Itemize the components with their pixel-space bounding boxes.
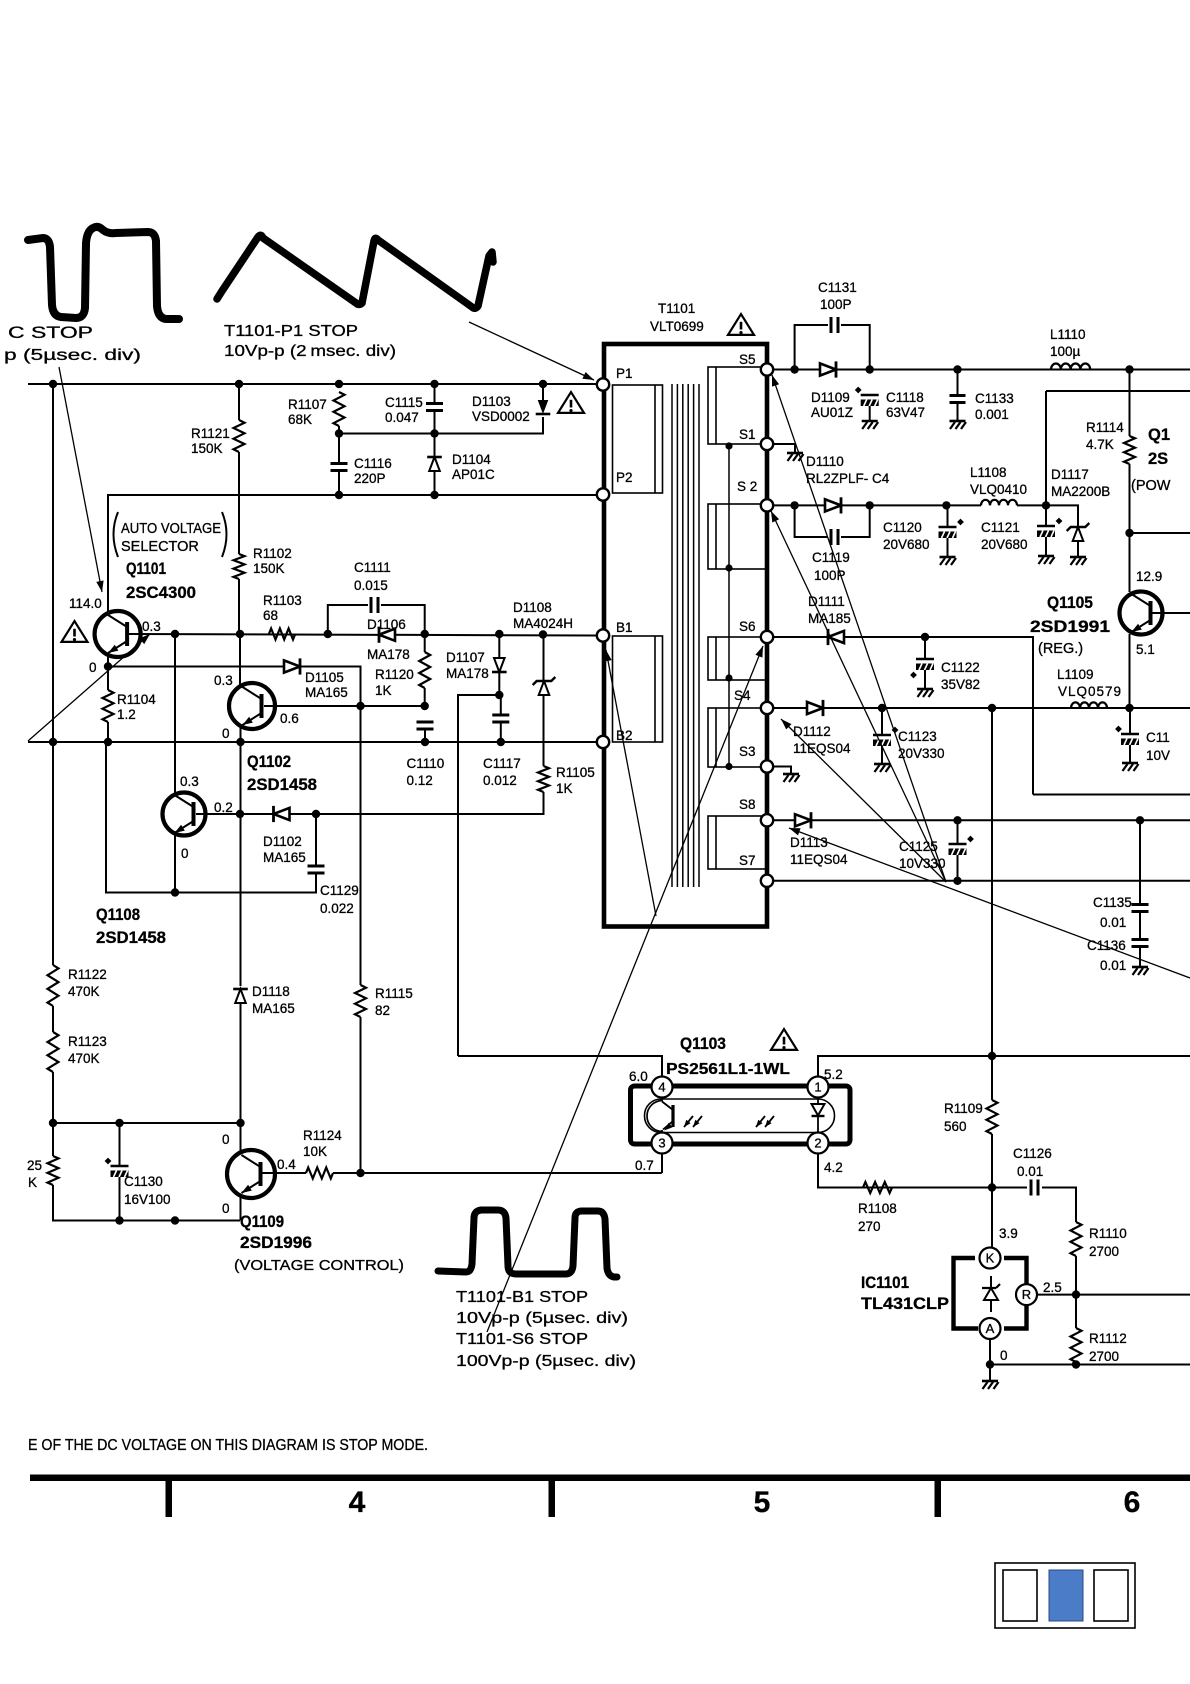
- value R1112 2700: [1089, 1349, 1119, 1364]
- svg-text:0.01: 0.01: [1100, 915, 1126, 930]
- wire S2 to L1108: [946, 504, 981, 506]
- label C1131: [818, 280, 857, 295]
- transistor Q1101: [95, 611, 141, 657]
- value R1115 82: [375, 1003, 390, 1018]
- svg-text:S8: S8: [739, 797, 756, 812]
- part 2SD1991: [1030, 618, 1110, 636]
- junction R1110/R-wire: [1072, 1290, 1080, 1298]
- ground at S1: [787, 453, 804, 461]
- junction W5/C1117: [497, 738, 505, 746]
- capacitor C1119: [831, 529, 838, 545]
- designator IC1101: [861, 1274, 909, 1292]
- label SELECTOR: [121, 539, 199, 555]
- svg-text:100µ: 100µ: [1050, 344, 1081, 359]
- wire D1108 top: [543, 635, 545, 682]
- junction R1114/Q1105 collector: [1125, 529, 1133, 537]
- pin K of IC1101: [980, 1248, 1001, 1269]
- value D1105 MA165: [305, 685, 348, 700]
- svg-text:20V680: 20V680: [883, 537, 930, 552]
- svg-text:C1123: C1123: [898, 729, 937, 744]
- diode D1110: [825, 497, 841, 513]
- svg-text:6: 6: [1124, 1486, 1141, 1519]
- svg-text:0.3: 0.3: [180, 774, 199, 789]
- designator Q1105: [1047, 594, 1093, 612]
- pin label B1: [616, 620, 633, 635]
- value C1130 16V100: [124, 1192, 171, 1207]
- value 0.6 at Q1102 base: [280, 711, 299, 726]
- label C1119: [812, 550, 850, 565]
- capacitor C1129: [308, 866, 325, 873]
- ground under C1122: [917, 689, 934, 697]
- junction S4/C1123: [878, 704, 886, 712]
- wire C1124 top: [1129, 708, 1131, 734]
- svg-text:20V330: 20V330: [898, 746, 945, 761]
- svg-text:(REG.): (REG.): [1038, 641, 1083, 657]
- value R1103 68: [263, 608, 278, 623]
- terminal P1: [597, 378, 609, 390]
- junction S5/C1133: [953, 365, 961, 373]
- wire left rail lower: [52, 1006, 54, 1032]
- svg-text:L1109: L1109: [1057, 667, 1094, 682]
- resistor R1109: [987, 1100, 998, 1134]
- svg-text:E OF THE DC VOLTAGE ON THIS DI: E OF THE DC VOLTAGE ON THIS DIAGRAM IS S…: [28, 1437, 428, 1454]
- value D1117 MA2200B: [1051, 484, 1110, 499]
- svg-text:R1108: R1108: [858, 1201, 897, 1216]
- svg-text:0.022: 0.022: [320, 901, 354, 916]
- zener D1117: [1067, 523, 1090, 541]
- junction W1/R1121: [235, 380, 243, 388]
- svg-text:114.0: 114.0: [69, 596, 102, 611]
- ground under C1121: [1038, 556, 1055, 564]
- wire S6 output: [773, 637, 1033, 795]
- wire Q1109 collector: [240, 1123, 242, 1152]
- svg-text:11EQS04: 11EQS04: [793, 741, 851, 756]
- svg-text:3: 3: [658, 1136, 665, 1151]
- wire C1130 top lead: [119, 1123, 121, 1166]
- capacitor C1116: [331, 464, 348, 471]
- label R1103: [263, 593, 302, 608]
- zone number 5: [754, 1486, 771, 1519]
- pin label S5: [739, 352, 756, 367]
- svg-text:0: 0: [181, 846, 189, 861]
- wire R1107 bottom: [338, 426, 340, 434]
- svg-text:150K: 150K: [191, 441, 223, 456]
- capacitor C1120 electrolytic: [939, 519, 964, 538]
- warning triangle near Q1103: [771, 1029, 797, 1050]
- wire D1102 to R1105 corner: [289, 813, 316, 815]
- value D1108 MA4024H: [513, 616, 573, 631]
- svg-text:Q1105: Q1105: [1047, 594, 1093, 612]
- value R1123 470K: [68, 1051, 100, 1066]
- label C1115: [385, 395, 423, 410]
- svg-text:270: 270: [858, 1219, 881, 1234]
- resistor R1107: [334, 392, 345, 426]
- value 0 at Q1109 collector: [222, 1132, 230, 1147]
- value C1122 35V82: [941, 677, 980, 692]
- label D1107: [446, 650, 485, 665]
- terminal B2: [597, 736, 609, 748]
- transformer primary winding P1-P2: [613, 385, 663, 493]
- wire A lead: [989, 1339, 991, 1365]
- wire bottom return: [990, 1364, 1190, 1366]
- wire Q1105 collector: [1129, 533, 1131, 592]
- wire Q1108 collector: [174, 634, 176, 793]
- svg-text:K: K: [28, 1175, 37, 1190]
- leader to S2: [771, 511, 946, 882]
- svg-text:0.4: 0.4: [277, 1157, 296, 1172]
- terminal B1: [597, 629, 609, 641]
- optocoupler light arrows right: [756, 1116, 774, 1127]
- svg-text:5.1: 5.1: [1136, 642, 1155, 657]
- transistor Q1102: [229, 683, 275, 729]
- wire R1110 bottom: [1075, 1256, 1077, 1295]
- value R1108 270: [858, 1219, 881, 1234]
- label (REG.): [1038, 641, 1083, 657]
- svg-text:2SD1458: 2SD1458: [96, 929, 166, 947]
- value C1133 0.001: [975, 407, 1009, 422]
- svg-text:20V680: 20V680: [981, 537, 1028, 552]
- ground under C1120: [940, 557, 957, 565]
- value C1111 0.015: [354, 578, 388, 593]
- svg-text:MA165: MA165: [305, 685, 348, 700]
- wire C1110 bottom: [424, 729, 426, 742]
- svg-text:10K: 10K: [303, 1144, 327, 1159]
- wire pin4 lead: [458, 1056, 662, 1077]
- wire pin2 lead: [818, 1154, 1025, 1188]
- optocoupler internal LED: [812, 1097, 825, 1133]
- svg-text:0.7: 0.7: [635, 1158, 654, 1173]
- wire aux vertical: [1045, 391, 1047, 504]
- value D1111 MA185: [808, 611, 851, 626]
- pin label S6: [739, 619, 756, 634]
- svg-text:SELECTOR: SELECTOR: [121, 539, 199, 555]
- value R1105 1K: [556, 781, 573, 796]
- warning triangle near D1103: [558, 392, 584, 413]
- resistor R1108: [863, 1182, 892, 1193]
- wire R1121 to R1102: [238, 452, 240, 554]
- wire Q1109 emitter: [240, 1196, 242, 1221]
- diode D1118: [233, 989, 248, 1003]
- svg-text:10Vp-p (5µsec. div): 10Vp-p (5µsec. div): [456, 1310, 628, 1327]
- transistor Q1108: [163, 793, 206, 836]
- capacitor C1122 electrolytic: [910, 659, 934, 678]
- junction pin1 bus/feedback: [988, 1052, 996, 1060]
- svg-text:C1111: C1111: [354, 560, 391, 575]
- junction R1109/R1108/C1126: [988, 1183, 996, 1191]
- diode D1103: [536, 400, 551, 414]
- junction W2/R1107-C1116: [335, 429, 343, 437]
- part 2SD (clipped): [1148, 450, 1168, 468]
- junction Q1108 emitter/bottom bus: [171, 1216, 179, 1224]
- zener D1108: [533, 677, 556, 695]
- svg-text:Q1103: Q1103: [680, 1035, 726, 1053]
- wire C1129 bottom corner: [106, 742, 316, 893]
- svg-text:A: A: [986, 1321, 995, 1336]
- value 0.2 at Q1108 base: [214, 800, 233, 815]
- value 0 at Q1108 emitter: [181, 846, 189, 861]
- label C1136: [1087, 938, 1126, 953]
- junction S8/C1135: [1136, 816, 1144, 824]
- wire Q1102 emitter branch down: [240, 742, 242, 986]
- label 100Vp-p (5usec div): [456, 1353, 636, 1370]
- value C1118 63V47: [886, 405, 925, 420]
- wire C1121 bottom: [1045, 537, 1047, 555]
- label L1108: [970, 465, 1007, 480]
- wire C1120 bottom: [947, 538, 949, 556]
- wire D1105 to corner: [299, 667, 361, 707]
- wire C1135-C1136: [1139, 912, 1141, 940]
- svg-text:C1136: C1136: [1087, 938, 1126, 953]
- wire W2 snubber bus: [339, 417, 543, 434]
- junction Q1101 emitter node: [104, 662, 112, 670]
- svg-text:R1102: R1102: [253, 546, 292, 561]
- wire left rail bottom corner: [53, 1185, 240, 1221]
- wire aux top right: [1046, 390, 1190, 392]
- svg-text:AP01C: AP01C: [452, 467, 495, 482]
- pin 3 of Q1103: [652, 1133, 673, 1154]
- junction S2/C1119 right: [866, 501, 874, 509]
- wire C1117 top: [500, 695, 502, 715]
- svg-text:MA165: MA165: [252, 1001, 295, 1016]
- svg-text:0.047: 0.047: [385, 410, 419, 425]
- regulator IC1101 body: [954, 1258, 1027, 1329]
- svg-text:VSD0002: VSD0002: [472, 409, 530, 424]
- svg-text:MA178: MA178: [367, 647, 410, 662]
- junction W1/R1107: [335, 380, 343, 388]
- wire C1120 top: [947, 505, 949, 527]
- designator Q1103: [680, 1035, 726, 1053]
- part 2SD1996: [240, 1234, 312, 1252]
- junction S4/feedback: [988, 704, 996, 712]
- junction tap S2: [725, 564, 732, 571]
- pin R of IC1101: [1016, 1284, 1037, 1305]
- junction W5/left rail: [49, 738, 57, 746]
- svg-text:16V100: 16V100: [124, 1192, 171, 1207]
- label C1116: [354, 456, 392, 471]
- leader to S4: [781, 719, 946, 882]
- part PS2561L1-1WL: [666, 1061, 790, 1078]
- junction Q1108 emitter/return wire: [171, 888, 179, 896]
- svg-text:C1118: C1118: [886, 390, 924, 405]
- svg-text:C1131: C1131: [818, 280, 857, 295]
- waveform T1101-P1 scope trace: [217, 235, 493, 308]
- svg-text:220P: 220P: [354, 471, 386, 486]
- svg-text:R1120: R1120: [375, 667, 414, 682]
- terminal S6: [761, 631, 773, 643]
- value 2.5 at R: [1043, 1280, 1062, 1295]
- value D1112 11EQS04: [793, 741, 851, 756]
- svg-text:IC1101: IC1101: [861, 1274, 909, 1292]
- junction W1/left rail: [49, 380, 57, 388]
- value C1135 0.01: [1100, 915, 1126, 930]
- value 0.7 at pin3: [635, 1158, 654, 1173]
- diode D1109: [820, 361, 836, 377]
- terminal S2: [761, 499, 773, 511]
- value R1110 2700: [1089, 1244, 1119, 1259]
- value C1126 0.01: [1017, 1164, 1043, 1179]
- label D1110: [806, 454, 844, 469]
- svg-text:S7: S7: [739, 853, 756, 868]
- wire C1117 bottom: [500, 722, 502, 742]
- label D1118: [252, 984, 290, 999]
- label R1125 (clipped): [27, 1158, 42, 1173]
- capacitor C1115: [426, 404, 443, 411]
- svg-text:0.012: 0.012: [483, 773, 517, 788]
- wire C1136 bottom: [1139, 947, 1141, 967]
- svg-text:Q1102: Q1102: [247, 753, 291, 771]
- ground under C1124: [1122, 763, 1139, 771]
- svg-text:35V82: 35V82: [941, 677, 980, 692]
- svg-text:MA165: MA165: [263, 850, 306, 865]
- pin 1 of Q1103: [808, 1077, 829, 1098]
- label R1124: [303, 1128, 342, 1143]
- zener inside IC1101: [982, 1276, 1000, 1312]
- wire S8 output: [773, 819, 1190, 821]
- svg-text:p (5µsec. div): p (5µsec. div): [4, 347, 141, 364]
- value 12.9 at Q1105 collector: [1136, 569, 1162, 584]
- wire R1114 branch: [1129, 370, 1131, 437]
- part TL431CLP: [861, 1295, 949, 1313]
- wire D1104 top: [434, 434, 436, 457]
- junction W4/Q1108 collector: [171, 630, 179, 638]
- svg-text:2: 2: [814, 1136, 821, 1151]
- value 3.9 at K: [999, 1226, 1018, 1241]
- junction W4/D1108: [539, 630, 547, 638]
- svg-text:C1115: C1115: [385, 395, 423, 410]
- svg-text:R1121: R1121: [191, 426, 230, 441]
- wire D1118 to Q1109 collector: [240, 1003, 242, 1152]
- label C1122: [941, 660, 980, 675]
- footer tick 1: [166, 1481, 173, 1517]
- transformer primary winding B1-B2: [613, 636, 663, 742]
- pin label B2: [616, 728, 633, 743]
- terminal S8: [761, 814, 773, 826]
- terminal S1: [761, 438, 773, 450]
- wire L1108 out: [1017, 505, 1078, 527]
- junction W5/C1110: [421, 738, 429, 746]
- label C1126: [1013, 1146, 1052, 1161]
- wire R1112 bottom: [1075, 1362, 1077, 1365]
- svg-text:D1109: D1109: [811, 390, 850, 405]
- leader to S6: [487, 646, 763, 1332]
- label (POWER (clipped): [1131, 478, 1171, 494]
- svg-text:0: 0: [1000, 1348, 1008, 1363]
- capacitor C1111: [371, 597, 378, 613]
- label C1110: [407, 756, 445, 771]
- junction W5/Q1102 emitter: [236, 738, 244, 746]
- diode D1106: [379, 627, 395, 643]
- wire W3 collector to P2: [108, 495, 596, 614]
- zone number 6: [1124, 1486, 1141, 1519]
- ground under C1136: [1132, 967, 1149, 975]
- junction W2/C1115-D1104: [430, 429, 438, 437]
- value 0.3 at Q1108 collector: [180, 774, 199, 789]
- wire C1126 right: [1042, 1188, 1076, 1223]
- wire C1123 top: [881, 708, 883, 735]
- svg-text:C1117: C1117: [483, 756, 521, 771]
- wire C1115 bottom: [434, 411, 436, 434]
- svg-text:AU01Z: AU01Z: [811, 405, 853, 420]
- junction R1112/bottom wire: [1072, 1360, 1080, 1368]
- svg-text:0.12: 0.12: [407, 773, 433, 788]
- svg-text:470K: 470K: [68, 1051, 100, 1066]
- svg-text:S 2: S 2: [737, 479, 757, 494]
- terminal S3: [761, 760, 773, 772]
- wire C1129 top: [315, 814, 317, 866]
- wire R1120 top: [424, 634, 426, 652]
- junction W4/C1111 left: [324, 630, 332, 638]
- wire feedback vertical: [991, 708, 993, 1056]
- designator Q1104 (clipped): [1148, 426, 1170, 444]
- value R1124 10K: [303, 1144, 327, 1159]
- svg-text:S1: S1: [739, 427, 756, 442]
- pin label S2: [737, 479, 757, 494]
- footer tick 2: [549, 1481, 556, 1517]
- value D1113 11EQS04: [790, 852, 848, 867]
- value R1121 150K: [191, 441, 223, 456]
- wire C1124 bottom: [1129, 745, 1131, 762]
- label C1135: [1093, 895, 1132, 910]
- page indicator box: [995, 1563, 1135, 1628]
- leader arrow to Q1101 base wire: [28, 634, 150, 741]
- pin label S4: [734, 688, 751, 703]
- svg-text:4: 4: [349, 1486, 366, 1519]
- terminal S4: [761, 702, 773, 714]
- value C1136 0.01: [1100, 958, 1126, 973]
- wire C1122 top: [924, 637, 926, 659]
- svg-text:R1109: R1109: [944, 1101, 983, 1116]
- wire C1130 top bus: [53, 1122, 241, 1124]
- transistor Q1109: [227, 1150, 275, 1198]
- label D1117: [1051, 467, 1089, 482]
- wire K lead: [991, 1188, 993, 1248]
- wire S3 stub: [773, 767, 791, 774]
- svg-text:D1110: D1110: [806, 454, 844, 469]
- label D1103: [472, 394, 511, 409]
- junction R1115/base wire: [356, 1169, 364, 1177]
- wire Q1108 base: [196, 813, 285, 815]
- label C1120: [883, 520, 922, 535]
- junction S6/C1122: [921, 633, 929, 641]
- resistor R1103: [269, 629, 295, 640]
- svg-text:MA4024H: MA4024H: [513, 616, 573, 631]
- capacitor C1130 electrolytic: [105, 1158, 129, 1177]
- value C1123 20V330: [898, 746, 945, 761]
- junction W1/D1103: [539, 380, 547, 388]
- wire Q1101 emitter to D1105: [108, 666, 285, 668]
- svg-text:C1126: C1126: [1013, 1146, 1052, 1161]
- value D1103 VSD0002: [472, 409, 530, 424]
- label D1113: [790, 835, 828, 850]
- junction L1108/C1121: [1042, 501, 1050, 509]
- svg-text:0.01: 0.01: [1100, 958, 1126, 973]
- part 2SD1458 (Q1102): [247, 776, 317, 794]
- value D1104 AP01C: [452, 467, 495, 482]
- value L1108 VLQ0410: [970, 482, 1027, 497]
- label 10Vp-p (2msec div): [224, 343, 396, 360]
- wire C1131 loop right: [841, 325, 870, 370]
- svg-text:K: K: [986, 1251, 995, 1266]
- svg-text:4.7K: 4.7K: [1086, 437, 1114, 452]
- leader arrow from sawtooth to P1: [469, 322, 594, 380]
- svg-text:VLQ0579: VLQ0579: [1058, 684, 1122, 699]
- svg-text:L1108: L1108: [970, 465, 1007, 480]
- value 6.0 at pin4: [629, 1069, 648, 1084]
- capacitor C1126: [1031, 1180, 1038, 1196]
- wire W4 base bus: [129, 634, 596, 636]
- resistor R1120: [419, 652, 430, 688]
- value 0 at Q1109 emitter: [222, 1201, 230, 1216]
